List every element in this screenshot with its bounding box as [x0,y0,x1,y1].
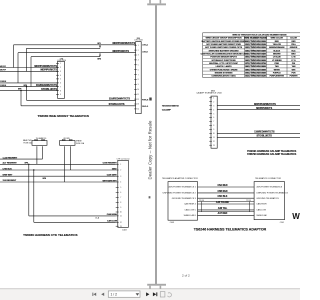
svg-text:WIRE COLOR: WIRE COLOR [271,38,284,40]
svg-text:MDP/P: MDP/P [0,66,7,68]
svg-text:2: 2 [213,101,214,103]
svg-text:14: 14 [137,109,139,111]
svg-text:9401 THROUGH 9499: 9401 THROUGH 9499 [245,53,266,56]
svg-text:C403: C403 [170,222,174,224]
svg-text:SP4: SP4 [97,58,100,61]
svg-text:MDP/PUR/CTS: MDP/PUR/CTS [256,108,272,110]
svg-text:2 of 2: 2 of 2 [182,273,190,277]
svg-text:PINK: PINK [274,63,279,65]
svg-text:WHI: WHI [292,69,296,71]
svg-text:9101 THROUGH 9199: 9101 THROUGH 9199 [245,76,266,78]
svg-text:12: 12 [213,141,215,143]
svg-text:FUSE 10A: FUSE 10A [76,142,85,145]
svg-text:FUSE 15A: FUSE 15A [24,141,33,144]
svg-text:UNFUSED POWER TELEMATICS: UNFUSED POWER TELEMATICS [256,192,288,195]
svg-text:SP1: SP1 [97,43,100,45]
svg-text:5: 5 [213,113,214,115]
svg-text:9: 9 [213,129,214,131]
svg-text:1 / 2: 1 / 2 [111,293,118,297]
svg-text:PWR-B: PWR-B [142,99,149,101]
svg-text:GREEN/ORANGE: GREEN/ORANGE [269,46,285,49]
svg-text:9101 THROUGH 9199: 9101 THROUGH 9199 [245,44,266,46]
svg-text:GRN/OR: GRN/OR [290,47,298,49]
svg-text:WHITE: WHITE [274,69,281,71]
svg-text:GROUND TELEMATICS 3: GROUND TELEMATICS 3 [172,197,197,200]
svg-text:CAN GRN: CAN GRN [107,173,117,176]
svg-text:110/RED/WHT/CTS: 110/RED/WHT/CTS [109,98,131,101]
svg-text:PUR/WH: PUR/WH [290,76,298,78]
svg-text:LT GREEN: LT GREEN [272,60,282,62]
svg-text:CONTROLLER COMMUNICATION GROUN: CONTROLLER COMMUNICATION GROUND CKT [201,53,248,56]
svg-text:C5B RED: C5B RED [217,191,227,193]
svg-text:12: 12 [120,222,122,224]
svg-text:C403: C403 [122,230,127,232]
svg-text:Dealer Copy -- Not for Resale: Dealer Copy -- Not for Resale [148,120,153,179]
svg-text:C501: C501 [280,222,284,224]
svg-text:C5A RED: C5A RED [218,184,228,187]
svg-text:TELEMATICS ADAPTER CONNECTOR: TELEMATICS ADAPTER CONNECTOR [162,177,198,180]
svg-text:LT B: LT B [291,57,296,59]
svg-text:PUR: PUR [292,73,297,75]
svg-text:GROUND TELEMATICS: GROUND TELEMATICS [256,197,279,200]
svg-text:CAN LOW: CAN LOW [107,220,117,223]
svg-text:MDP/PUR/WHT/CTS: MDP/PUR/WHT/CTS [113,42,136,45]
svg-text:13: 13 [213,145,215,147]
svg-text:SP6: SP6 [24,85,27,87]
svg-text:9601 THROUGH 9699: 9601 THROUGH 9699 [245,60,266,62]
svg-text:7019191/7266793: 7019191/7266793 [162,105,180,107]
svg-text:ENGINE SYSTEMS: ENGINE SYSTEMS [215,73,233,75]
svg-text:MDP/PUR/CTS: MDP/PUR/CTS [41,69,58,72]
svg-text:STO/BLU/CTS: STO/BLU/CTS [109,103,125,106]
svg-text:7266793 HARNESS CALAMP TELEMAT: 7266793 HARNESS CALAMP TELEMATICS [247,153,297,156]
svg-text:MDP/P: MDP/P [0,70,7,72]
svg-text:SHIELD AF: SHIELD AF [256,214,267,217]
svg-text:9701 THROUGH 9799: 9701 THROUGH 9799 [245,63,266,65]
svg-text:4: 4 [120,182,121,184]
svg-text:LON-B: LON-B [142,52,149,54]
svg-text:12: 12 [137,99,139,101]
svg-text:LT BLUE: LT BLUE [273,57,282,59]
svg-text:9901 THROUGH 9999: 9901 THROUGH 9999 [245,69,266,71]
svg-text:CAN LOW: CAN LOW [256,209,266,212]
svg-text:BROWN: BROWN [273,54,281,56]
svg-text:8: 8 [213,125,214,127]
svg-text:YELLOW: YELLOW [273,44,281,46]
svg-text:110/RE: 110/RE [0,85,7,87]
svg-text:LIGHTS / LAMPS: LIGHTS / LAMPS [216,65,233,68]
svg-text:4GN POWER TELEMATICS 1: 4GN POWER TELEMATICS 1 [168,186,196,189]
svg-text:A46 YEL: A46 YEL [218,207,228,210]
svg-text:NOT FUSED SWITCHED POWER CKTS: NOT FUSED SWITCHED POWER CKTS [205,47,243,49]
svg-text:STO/BLU/CTS: STO/BLU/CTS [257,136,273,138]
svg-text:MDP/PUR/WHT/CTS: MDP/PUR/WHT/CTS [254,104,276,106]
svg-text:NOT FUSED BATTERY DIRECT PWR: NOT FUSED BATTERY DIRECT PWR [206,43,241,46]
svg-text:9001 THROUGH 9099: 9001 THROUGH 9099 [245,41,266,43]
svg-text:C5D BLK: C5D BLK [218,196,228,198]
svg-text:2: 2 [120,170,121,172]
svg-text:7: 7 [213,121,214,123]
svg-text:TS6246 HARNESS TELEMATICS ADAP: TS6246 HARNESS TELEMATICS ADAPTOR [194,228,267,232]
svg-text:CAN HIGH: CAN HIGH [256,203,267,206]
svg-text:TELEMATICS CONNECTOR: TELEMATICS CONNECTOR [255,177,281,180]
svg-text:SP9: SP9 [25,163,28,165]
svg-text:11: 11 [120,216,122,218]
svg-text:8: 8 [120,202,121,204]
svg-text:11: 11 [213,137,215,139]
svg-text:COMMUNICATION / DATA: COMMUNICATION / DATA [211,75,236,78]
svg-text:9801 THROUGH 9899: 9801 THROUGH 9899 [245,66,266,68]
svg-text:ALT RED/WHT: ALT RED/WHT [3,161,18,164]
svg-text:UNFUSED POWER TELEMATICS 2: UNFUSED POWER TELEMATICS 2 [163,192,197,195]
svg-text:10: 10 [213,133,215,135]
svg-text:5: 5 [120,187,121,189]
svg-text:MDP/PUR/WHT/CTS: MDP/PUR/WHT/CTS [34,65,57,68]
svg-text:9201 THROUGH 9299: 9201 THROUGH 9299 [245,47,266,49]
svg-text:PURPLE/WHITE: PURPLE/WHITE [270,76,285,78]
svg-text:SWITCHED BATTERY GROUND: SWITCHED BATTERY GROUND [209,49,239,52]
svg-text:10: 10 [137,89,139,91]
svg-text:SHIELD AF 6: SHIELD AF 6 [184,214,197,217]
svg-text:CHS BLK: CHS BLK [3,168,13,170]
svg-text:RED: RED [292,41,297,43]
svg-text:A47 RED: A47 RED [218,212,228,215]
svg-text:MDP/PUR/CTS: MDP/PUR/CTS [113,50,130,53]
svg-text:NEUTRAL / PTO / UPFIT FUNC: NEUTRAL / PTO / UPFIT FUNC [209,62,238,65]
svg-text:TS6080 WHE MOREY TELEMATICS: TS6080 WHE MOREY TELEMATICS [37,114,88,118]
svg-text:6: 6 [120,192,121,194]
svg-text:1: 1 [213,98,214,100]
svg-text:13: 13 [137,104,139,106]
svg-text:9501 THROUGH 9599: 9501 THROUGH 9599 [245,57,266,59]
svg-text:STO/BLU/CTS: STO/BLU/CTS [41,88,57,91]
svg-text:TELEMATICS: TELEMATICS [36,137,47,140]
svg-text:TS6060 HARNESS CTK TELEMATICS: TS6060 HARNESS CTK TELEMATICS [23,233,77,237]
svg-text:LON CN34: LON CN34 [134,40,142,42]
svg-text:WIRE NUMBER RANGE: WIRE NUMBER RANGE [244,37,267,40]
svg-text:4GN POWER TELEMATICS: 4GN POWER TELEMATICS [256,186,282,189]
svg-text:LT G: LT G [291,60,296,62]
svg-text:110/RED/WHT/CTS: 110/RED/WHT/CTS [36,84,58,87]
svg-text:6: 6 [213,117,214,119]
svg-text:CTK Connector: CTK Connector [116,157,129,160]
svg-text:10: 10 [120,212,122,214]
svg-text:BLA: BLA [292,49,297,52]
svg-text:7: 7 [120,197,121,199]
svg-text:1-2A RED/WHT: 1-2A RED/WHT [3,156,18,159]
svg-text:9001 THROUGH 9099: 9001 THROUGH 9099 [245,73,266,75]
svg-text:TAN: TAN [292,65,296,68]
svg-text:CAN LOW 5: CAN LOW 5 [185,209,197,212]
svg-text:WHT/GRN WH: WHT/GRN WH [103,180,117,182]
svg-text:110/RE: 110/RE [0,81,7,83]
svg-text:PURPLE: PURPLE [273,73,281,75]
svg-text:YELL: YELL [291,44,297,46]
svg-text:TP-11: TP-11 [246,200,251,202]
svg-text:RED: RED [275,41,280,43]
svg-text:3: 3 [213,105,214,107]
svg-text:CALAMP TELEMATICS CN34: CALAMP TELEMATICS CN34 [196,91,221,94]
svg-text:4: 4 [213,109,214,111]
svg-text:KEYSW: KEYSW [63,138,70,140]
svg-text:A45 TXL/NC: A45 TXL/NC [216,201,229,204]
svg-text:BRO: BRO [291,54,296,56]
svg-text:11: 11 [137,94,139,96]
svg-text:OTHER FUNCTIONS / SPARE: OTHER FUNCTIONS / SPARE [210,68,238,71]
svg-text:COM RED/WH: COM RED/WH [103,162,117,164]
svg-text:LON-A: LON-A [142,44,149,47]
svg-text:GND-S: GND-S [142,106,149,108]
svg-text:9301 THROUGH 9399: 9301 THROUGH 9399 [245,50,266,52]
svg-text:3: 3 [120,176,121,178]
svg-text:110 RED/WHT: 110 RED/WHT [3,180,17,182]
svg-text:110/RED/WHT/CTS: 110/RED/WHT/CTS [254,132,275,134]
svg-text:LON CN14: LON CN14 [57,60,66,62]
svg-text:TAN: TAN [275,65,279,68]
svg-text:13: 13 [120,226,122,228]
svg-text:TP-10: TP-10 [199,200,204,202]
svg-text:BATTERY IGNITION SWITCHED POWE: BATTERY IGNITION SWITCHED POWER FEED [202,40,246,43]
svg-text:W: W [292,212,300,221]
svg-text:9: 9 [120,207,121,209]
svg-text:HYDRAULIC FUNCTIONS: HYDRAULIC FUNCTIONS [212,59,237,62]
svg-text:GRN WHT: GRN WHT [3,174,14,176]
svg-text:CALAMP: CALAMP [162,109,172,112]
svg-text:POSITION SENSOR INPUTS: POSITION SENSOR INPUTS [210,57,237,59]
svg-text:SP8: SP8 [43,178,46,180]
svg-text:COLOR: COLOR [290,38,297,40]
svg-text:WIRE CIRCUIT GROUP DESCRIPTION: WIRE CIRCUIT GROUP DESCRIPTION [206,38,243,40]
svg-text:1: 1 [120,164,121,166]
svg-text:BLACK: BLACK [273,49,280,52]
svg-text:CAN HIGH 4: CAN HIGH 4 [184,203,197,206]
svg-text:SP5: SP5 [18,89,21,91]
